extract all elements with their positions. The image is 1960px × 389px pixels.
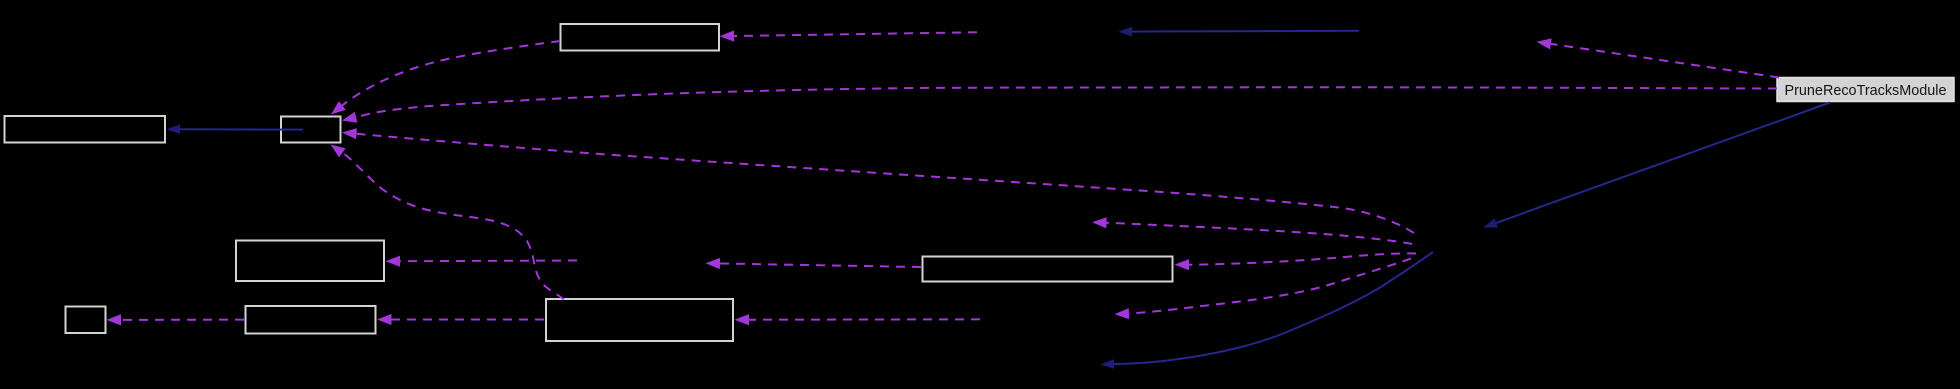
dashed edge: node G to node F <box>377 314 544 325</box>
blue edge: hidden center node to bottom hidden node (curved) <box>1101 252 1434 369</box>
node E (tiny bottom-left box) <box>66 307 106 334</box>
node PruneRecoTracksModule <box>1777 78 1954 102</box>
dashed edge: node A to node C (curve) <box>331 41 560 115</box>
node D (mid-left tall box) <box>236 241 384 282</box>
blue edge: PruneRecoTracksModule to hidden center node <box>1484 103 1831 228</box>
node H (center-right box) <box>923 257 1173 282</box>
dashed edge: hidden node to node D <box>386 256 578 267</box>
svg-text:PruneRecoTracksModule: PruneRecoTracksModule <box>1785 82 1947 99</box>
blue edge: hidden node to node A row (top) <box>1119 27 1360 37</box>
node F (bottom-left box) <box>246 306 376 334</box>
dashed edge: node F to node E <box>107 314 245 325</box>
node G (bottom-center tall box) <box>546 299 733 341</box>
node C (small hub box) <box>281 117 341 143</box>
dashed edge: PruneRecoTracksModule to hidden node (top right) <box>1537 38 1780 77</box>
dashed edge: node G to node C (S-curve) <box>331 145 565 300</box>
dashed edge: node H to hidden node (left) <box>706 258 922 269</box>
dashed edge: hidden center node to hidden node (upper mid) <box>1092 217 1412 244</box>
node B (far-left empty box) <box>5 116 166 143</box>
dashed edge: hidden center node to hidden node (lower mid) <box>1115 259 1412 320</box>
dashed edge: hidden center node to node C (long mid line) <box>342 128 1414 233</box>
dashed edge: hidden node to node A <box>720 30 978 41</box>
node A (top empty box) <box>561 24 720 51</box>
blue edge: node C to node B <box>167 124 304 134</box>
dashed edge: PruneRecoTracksModule to node C (long top line) <box>342 87 1777 122</box>
dashed edge: hidden node to node G <box>735 314 981 325</box>
dashed edge: hidden center node to node H <box>1175 253 1417 270</box>
